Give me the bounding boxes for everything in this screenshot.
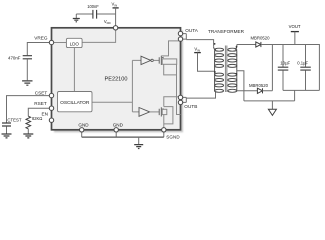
pin OUTA (2)	[178, 37, 182, 41]
supply terminal VIN (top)	[112, 1, 119, 8]
wire Q1 drain to OUTA pins	[161, 41, 179, 56]
transformer T1 core	[225, 46, 227, 93]
svg-text:RSET: RSET	[34, 101, 47, 106]
svg-text:SGND: SGND	[166, 135, 180, 140]
diode D2 MBR0520	[257, 88, 262, 93]
wire VOUT rail	[261, 45, 320, 91]
ground (below IC)	[134, 145, 143, 149]
svg-text:VREG: VREG	[34, 36, 48, 41]
wire secondary center tap to return bus	[237, 71, 244, 101]
wire C2 to VIN node	[97, 13, 116, 15]
wire C1 to ground	[26, 59, 28, 80]
pin GND (2)	[114, 128, 118, 132]
capacitor C5 0.1uF	[300, 67, 311, 70]
pin SGND	[162, 128, 166, 132]
svg-text:OSCILLATOR: OSCILLATOR	[60, 100, 90, 106]
svg-text:GND: GND	[113, 122, 124, 127]
svg-text:PE22100: PE22100	[105, 77, 128, 83]
transformer T1 primary winding (lower half)	[215, 73, 224, 92]
svg-text:TRANSFORMER: TRANSFORMER	[208, 29, 245, 34]
wire R1 to ground	[27, 129, 29, 134]
ground (left of C2)	[73, 14, 80, 22]
wire OUTB pins to transformer primary bottom	[181, 92, 216, 103]
supply terminal VOUT	[289, 24, 301, 32]
svg-text:EN: EN	[41, 112, 48, 117]
svg-text:LDO: LDO	[70, 42, 80, 47]
wire VOUT terminal to rail	[294, 32, 296, 45]
svg-text:82KΩ: 82KΩ	[32, 116, 42, 121]
wire bus to output ground	[271, 101, 273, 109]
ground (below R1)	[23, 134, 33, 138]
capacitor C4 10uF	[278, 67, 289, 70]
IC U1 drop shadow	[54, 30, 183, 132]
svg-text:0.1µF: 0.1µF	[297, 60, 308, 65]
wire VIN terminal to primary center tap	[198, 53, 215, 72]
wire secondary bottom to D2 anode	[237, 90, 257, 92]
wire VDD pin to LDO input	[82, 28, 116, 42]
ground (below C3)	[2, 134, 12, 138]
output ground (open triangle)	[268, 109, 276, 115]
ground bus under IC	[82, 136, 164, 138]
pin GND (1)	[80, 128, 84, 132]
gate driver buffer B	[139, 108, 159, 117]
wire Q2 drain to OUTB pins	[164, 97, 180, 107]
polarity dot primary lower	[214, 71, 216, 73]
wire VREG pin to LDO output	[52, 42, 67, 44]
wire CSET pin to C3	[7, 96, 52, 123]
oscillator block	[58, 92, 93, 112]
IC U1 PE22100 package body	[52, 28, 181, 130]
svg-text:CSET: CSET	[35, 90, 48, 95]
svg-text:CTEST: CTEST	[7, 117, 21, 122]
pin CSET	[49, 93, 53, 97]
wire ground to C2	[76, 13, 92, 15]
pin VREG	[49, 40, 53, 44]
wire GND/SGND pin stubs	[82, 130, 164, 137]
supply terminal VIN (primary center tap)	[194, 47, 201, 53]
pin OUTB (2)	[178, 100, 182, 104]
svg-text:470nF: 470nF	[8, 56, 21, 61]
output MOSFET Q1 (OUTA stage)	[159, 56, 177, 65]
pin RSET	[49, 106, 53, 110]
wire RSET pin to R1	[28, 108, 51, 116]
wire Q1 source rail down to OUTB node	[164, 64, 181, 114]
wire oscillator output to gate drivers	[92, 60, 141, 112]
wire capacitor bottom join and drop to return bus	[283, 90, 319, 101]
wire secondary top to D1 anode	[237, 44, 256, 46]
capacitor C2 100nF	[93, 10, 97, 19]
polarity dot primary upper	[214, 43, 216, 45]
pin VDD	[113, 26, 117, 30]
svg-text:OUTB: OUTB	[184, 104, 197, 109]
gate driver buffer A	[141, 56, 159, 64]
pin EN	[49, 118, 53, 122]
wire VREG pin to C1	[27, 43, 51, 56]
transformer T1 secondary winding (upper half)	[228, 45, 237, 92]
svg-text:100nF: 100nF	[87, 4, 99, 9]
wire secondary return bus	[244, 100, 295, 102]
transformer T1 primary winding (upper half)	[214, 47, 224, 92]
wire D2 cathode up to VOUT rail	[263, 45, 273, 91]
wire C3 to ground	[6, 126, 8, 133]
wire C4 to bottom join	[282, 70, 284, 90]
polarity dot secondary lower	[235, 73, 237, 75]
wire OUTA pins to transformer primary top	[181, 34, 214, 47]
ground (below C1)	[22, 81, 32, 85]
transformer T1 secondary winding (lower half)	[228, 73, 237, 92]
svg-text:MBR0520: MBR0520	[249, 83, 269, 88]
svg-text:10µF: 10µF	[280, 60, 290, 65]
svg-text:VOUT: VOUT	[289, 24, 301, 29]
pin OUTA (1)	[178, 31, 182, 35]
svg-text:OUTA: OUTA	[185, 28, 199, 33]
wire Q2 source to SGND pin	[164, 107, 173, 130]
wire rail to C5	[305, 45, 307, 67]
wire bus to ground symbol	[138, 137, 140, 144]
capacitor C3 CTEST	[2, 123, 11, 126]
wire LDO to oscillator	[73, 48, 75, 92]
svg-text:GND: GND	[78, 122, 89, 127]
polarity dot secondary upper	[236, 46, 238, 48]
diode D1 MBR0520	[256, 42, 261, 47]
wire VIN terminal to VDD pin	[115, 8, 117, 26]
svg-text:MBR0520: MBR0520	[250, 35, 270, 40]
wire rail to C4	[282, 45, 284, 67]
resistor R1 82K	[26, 116, 31, 129]
LDO block	[66, 38, 82, 47]
wire C5 to bottom join	[305, 70, 307, 90]
pin OUTB (1)	[178, 95, 182, 99]
capacitor C1 470nF	[23, 56, 32, 59]
output MOSFET Q2 (OUTB stage)	[159, 107, 167, 116]
